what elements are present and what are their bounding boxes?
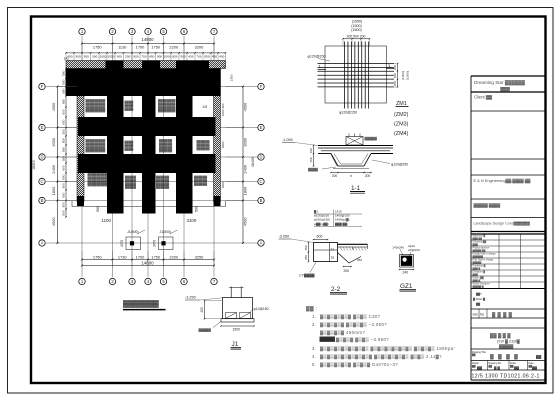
svg-text:450: 450 [149, 55, 154, 59]
svg-text:450: 450 [212, 55, 217, 59]
svg-text:3100: 3100 [187, 218, 197, 223]
svg-text:1a: 1a [331, 256, 335, 260]
svg-text:1750: 1750 [93, 254, 102, 259]
svg-text:600: 600 [317, 235, 323, 239]
plan right hatched wall [214, 69, 221, 202]
svg-text:500: 500 [195, 206, 199, 212]
ZM size table [314, 210, 350, 226]
svg-text:9: 9 [352, 247, 354, 251]
svg-text:φ120@150: φ120@150 [308, 55, 326, 59]
pad footing symbol 2 on axis A [159, 237, 174, 250]
axis grid lines [46, 36, 258, 277]
svg-text:450: 450 [304, 245, 308, 250]
svg-text:850: 850 [172, 55, 177, 59]
svg-text:▓▓▓▓▓▓▓: ▓▓▓▓▓▓▓ [123, 299, 160, 308]
svg-text:18400: 18400 [251, 157, 255, 167]
svg-text:500: 500 [61, 79, 65, 84]
svg-text:3250: 3250 [195, 254, 204, 259]
svg-text:(1000): (1000) [406, 71, 410, 80]
ZM vertical rebars [345, 42, 369, 109]
svg-text:450: 450 [200, 307, 204, 313]
svg-text:2400: 2400 [51, 164, 56, 173]
strip foundation H2 [78, 117, 216, 136]
svg-text:▓ ▓: ▓ ▓ [494, 366, 500, 370]
room label cluster row2 W1 [86, 139, 106, 153]
svg-text:500: 500 [61, 202, 65, 207]
room label cluster row1 W3 [158, 99, 176, 113]
svg-text:1800: 1800 [243, 186, 248, 195]
svg-text:▓▓: ▓▓ [536, 354, 542, 359]
project name box [471, 327, 545, 329]
bottom info row [471, 360, 545, 362]
GZ1 column section [400, 255, 414, 268]
svg-text:100: 100 [309, 148, 313, 153]
svg-text:1000: 1000 [100, 55, 107, 59]
svg-text:14800: 14800 [141, 37, 154, 42]
J1 dim 1500 [221, 325, 254, 327]
2-2 left dims [308, 243, 310, 262]
ZM right dim stack [397, 64, 399, 88]
J1 dim 450 [204, 301, 206, 319]
svg-text:1750: 1750 [151, 254, 160, 259]
svg-text:▓▓▓▓▓▓▓▓▓: ▓▓▓▓▓▓▓▓▓ [86, 109, 106, 113]
svg-text:▓▓?: ▓▓? [476, 292, 482, 296]
ZM top dim stack [351, 20, 362, 33]
svg-text:▓▓▓▓▓: ▓▓▓▓▓ [125, 185, 137, 189]
svg-text:600: 600 [61, 165, 65, 170]
left dim line [57, 87, 59, 244]
svg-text:▓▓: ▓▓ [532, 366, 537, 370]
svg-text:600: 600 [61, 119, 65, 124]
svg-text:200: 200 [332, 174, 338, 178]
svg-text:900: 900 [75, 55, 80, 59]
svg-text:(A): (A) [64, 57, 69, 61]
svg-text:550: 550 [61, 156, 65, 161]
plan left hatched wall [77, 69, 84, 202]
svg-text:▓▓: ▓▓ [514, 366, 519, 370]
svg-text:4500: 4500 [51, 102, 56, 111]
svg-text:1500: 1500 [233, 328, 241, 332]
svg-text:D: D [40, 155, 43, 160]
svg-text:(ZM3): (ZM3) [394, 122, 409, 128]
svg-text:150: 150 [309, 157, 313, 162]
svg-text:▓ Prow ▓: ▓ Prow ▓ [473, 297, 486, 301]
svg-text:▓▓ :: ▓▓ : [306, 305, 318, 312]
GZ1 dim 240 [400, 269, 414, 271]
svg-text:▓▓▓▓▓▓▓▓: ▓▓▓▓▓▓▓▓ [158, 109, 176, 113]
svg-text:▓▓: ▓▓ [489, 365, 493, 368]
drawing number row [471, 369, 545, 371]
strip foundation V4 [176, 61, 193, 214]
svg-text:500: 500 [61, 138, 65, 143]
wall stub bottom-right [214, 196, 221, 206]
svg-text:φ120@250: φ120@250 [391, 163, 408, 167]
svg-text:200: 200 [393, 65, 397, 70]
svg-text:1-1: 1-1 [351, 185, 361, 192]
strip foundation H3 [78, 154, 216, 173]
svg-text:1000: 1000 [164, 55, 171, 59]
svg-text:240: 240 [403, 271, 409, 275]
svg-text:550: 550 [61, 70, 65, 75]
svg-text:2200: 2200 [169, 45, 178, 50]
svg-text:F: F [41, 84, 44, 89]
svg-text:▓▓▓▓▓▓: ▓▓▓▓▓▓ [194, 182, 208, 186]
svg-text:250: 250 [304, 255, 308, 260]
strip foundation V2 [107, 61, 124, 214]
svg-text:-3.250: -3.250 [185, 296, 196, 300]
drawing title row [471, 348, 545, 350]
svg-text:J1(500): J1(500) [160, 230, 172, 234]
bottom total dim line [82, 265, 214, 267]
svg-text:550: 550 [61, 147, 65, 152]
svg-text:1730: 1730 [118, 254, 127, 259]
svg-text:b: b [350, 174, 352, 178]
svg-text:14800: 14800 [141, 261, 154, 266]
svg-text:4500: 4500 [243, 102, 248, 111]
room label cluster row3 W4 [194, 175, 208, 186]
2-2 footing outline [314, 243, 368, 264]
svg-text:vdo: vdo [473, 313, 478, 317]
svg-text:4.: 4. [312, 354, 316, 359]
svg-text:▓▓▓(▓▓): ▓▓▓(▓▓) [335, 222, 348, 226]
svg-text:▓▓▓▓: ▓▓▓▓ [125, 107, 135, 111]
svg-text:5.: 5. [312, 362, 316, 367]
signature fine table [471, 233, 545, 235]
svg-text:450: 450 [188, 55, 193, 59]
svg-text:3000: 3000 [51, 137, 56, 146]
notes block [306, 305, 387, 336]
strip foundation H1 [66, 69, 221, 97]
2-2 hatch ticks under top line [340, 247, 366, 251]
svg-text:200: 200 [393, 81, 397, 86]
svg-text:φ12@150: φ12@150 [254, 307, 269, 311]
svg-text:3200: 3200 [195, 45, 204, 50]
svg-text:▓▓▓▓▓▓▓▓▓: ▓▓▓▓▓▓▓▓▓ [88, 183, 108, 187]
vdo/foc row [471, 308, 545, 310]
top sub dim line [66, 52, 226, 54]
svg-text:▓▓▓▓: ▓▓▓▓ [308, 168, 318, 172]
svg-text:(ZM2): (ZM2) [394, 112, 409, 118]
svg-text:750: 750 [141, 55, 146, 59]
stamp box small texts [473, 292, 486, 306]
ZM mat detail square [325, 46, 387, 103]
room label cluster row2 W3 [159, 139, 173, 153]
left sub dim line [65, 69, 67, 218]
svg-text:1800: 1800 [221, 141, 225, 148]
axis circles L [39, 83, 45, 246]
room label cluster row3 W3 [156, 175, 170, 189]
svg-text:CY▓▓▓▓: CY▓▓▓▓ [299, 273, 315, 278]
1-1 stirrup box top [346, 137, 363, 146]
svg-text:▓▓▓▓▓: ▓▓▓▓▓ [365, 137, 378, 141]
svg-text:18400: 18400 [32, 160, 36, 170]
svg-text:1750: 1750 [93, 45, 102, 50]
bottom extension lines [82, 251, 214, 267]
J1 footing section [221, 287, 254, 323]
svg-text:φ6@200: φ6@200 [408, 248, 420, 252]
svg-text:4500: 4500 [243, 217, 248, 226]
1-1 slab lines [318, 146, 393, 154]
svg-text:A: A [260, 241, 263, 246]
svg-text:650: 650 [61, 99, 65, 104]
room label cluster row2 W4 [197, 140, 211, 151]
svg-text:2: 2 [224, 65, 226, 69]
svg-text:1a: 1a [331, 248, 335, 252]
svg-text:-3.050: -3.050 [279, 235, 290, 239]
axis circles B [79, 278, 217, 284]
svg-text:foc: foc [480, 313, 485, 317]
svg-text:D: D [259, 155, 262, 160]
svg-text:900: 900 [157, 55, 162, 59]
plan bottom outline [72, 201, 226, 207]
svg-text:500: 500 [61, 183, 65, 188]
svg-text:φ▓▓(φ▓▓): φ▓▓(φ▓▓) [314, 222, 329, 226]
1-1 bottom dims [331, 172, 371, 174]
svg-text:E32033: E32033 [320, 338, 332, 342]
pad footing symbol 1 on axis A [126, 237, 141, 250]
svg-text:C: C [40, 179, 43, 184]
svg-text:43: 43 [203, 104, 208, 109]
top dim line [82, 43, 214, 45]
svg-text:200: 200 [344, 269, 350, 273]
svg-text:J1: J1 [232, 341, 239, 348]
1-1 left dim [313, 146, 315, 167]
svg-text:GZ1: GZ1 [400, 283, 413, 290]
svg-text:▓▓▓▓▓▓: ▓▓▓▓▓▓ [197, 146, 211, 150]
svg-text:900: 900 [133, 55, 138, 59]
svg-text:▓▓▓▓: ▓▓▓▓ [125, 147, 135, 151]
svg-text:E: E [41, 125, 44, 130]
svg-text:1800: 1800 [51, 186, 56, 195]
axis circles R [258, 83, 264, 246]
svg-text:E: E [260, 125, 263, 130]
svg-text:500: 500 [61, 129, 65, 134]
svg-text:1130: 1130 [118, 45, 127, 50]
svg-text:2470: 2470 [152, 240, 156, 247]
black wall chunks in top wall [106, 61, 210, 69]
svg-text:▓▓▓▓▓▓: ▓▓▓▓▓▓ [159, 149, 173, 153]
1-1 trapezoid pit [331, 154, 371, 167]
svg-text:1750: 1750 [151, 45, 160, 50]
svg-text:600: 600 [61, 109, 65, 114]
svg-text:500: 500 [61, 174, 65, 179]
svg-text:▓▓: ▓▓ [477, 366, 482, 370]
plan top hatched wall [66, 61, 226, 69]
svg-text:1050: 1050 [108, 55, 115, 59]
bottom dim line [82, 259, 214, 261]
svg-text:2470: 2470 [120, 240, 124, 247]
room label cluster row3 W1 [88, 173, 108, 187]
top extension lines [66, 44, 226, 60]
svg-text:▓▓: ▓▓ [472, 365, 476, 368]
svg-text:1300: 1300 [230, 74, 234, 81]
right dim line [242, 87, 244, 244]
svg-text:▓▓▓▓▓: ▓▓▓▓▓ [199, 328, 212, 332]
svg-text:1700: 1700 [136, 254, 145, 259]
svg-text:700: 700 [196, 55, 201, 59]
highlighted note box [320, 337, 336, 342]
svg-text:950: 950 [84, 55, 89, 59]
wall stub bottom-left [77, 196, 84, 206]
svg-text:1700: 1700 [136, 45, 145, 50]
left extension lines [59, 87, 78, 201]
svg-text:A: A [41, 241, 44, 246]
svg-text:900: 900 [180, 55, 185, 59]
svg-text:550: 550 [61, 88, 65, 93]
svg-text:500: 500 [61, 210, 65, 215]
svg-text:240x240: 240x240 [393, 246, 405, 250]
svg-text:500: 500 [96, 206, 100, 212]
svg-text:600: 600 [61, 192, 65, 197]
axis circles T [79, 28, 217, 34]
room label cluster row1 W2 [125, 100, 135, 111]
svg-text:(ZM4): (ZM4) [394, 131, 409, 137]
svg-text:(1400): (1400) [401, 71, 405, 80]
room label cluster row3 W2 [125, 175, 137, 189]
right extension lines [226, 87, 243, 201]
svg-text:▓▓▓▓▓ ▓: ▓▓▓▓▓ ▓ [473, 285, 484, 288]
svg-text:(1600): (1600) [351, 28, 361, 32]
svg-text:▓▓▓▓▓▓▓▓▓: ▓▓▓▓▓▓▓▓▓ [86, 149, 106, 153]
J1 inner rebar boxes [226, 313, 251, 319]
room label cluster row2 W2 [125, 140, 135, 151]
svg-text:2-2: 2-2 [331, 286, 341, 293]
2-2 dim 200 [344, 266, 352, 268]
svg-text:-1.050: -1.050 [282, 138, 293, 142]
svg-text:J1(500): J1(500) [127, 230, 139, 234]
svg-text:φ120@150: φ120@150 [339, 111, 357, 115]
room label cluster row1 W1 [86, 99, 106, 113]
svg-text:500: 500 [92, 55, 97, 59]
svg-text:2.: 2. [312, 322, 316, 327]
svg-text:600: 600 [393, 73, 397, 78]
svg-text:B: B [41, 198, 44, 203]
svg-text:1800: 1800 [221, 181, 225, 188]
strip foundation V3 [142, 61, 156, 214]
svg-text:350: 350 [357, 258, 362, 262]
svg-text:▓▓: ▓▓ [472, 354, 476, 357]
svg-text:3000: 3000 [243, 137, 248, 146]
title block outline [470, 76, 472, 380]
svg-text:2200: 2200 [169, 254, 178, 259]
svg-text:3.: 3. [312, 346, 316, 351]
right inner rotated dims [221, 103, 225, 188]
ZM horizontal rebars [318, 64, 395, 87]
svg-text:▓▓▓▓▓▓: ▓▓▓▓▓▓ [156, 185, 170, 189]
svg-text:200 500 200: 200 500 200 [347, 34, 366, 38]
svg-text:400: 400 [219, 55, 224, 59]
svg-text:F: F [260, 84, 263, 89]
svg-text:12/5 1300 TD1021.06.2-1: 12/5 1300 TD1021.06.2-1 [472, 374, 540, 380]
svg-text:4500: 4500 [51, 217, 56, 226]
svg-text:C: C [259, 179, 262, 184]
svg-text:200: 200 [365, 174, 371, 178]
svg-text:900: 900 [117, 55, 122, 59]
svg-text:1.: 1. [312, 314, 316, 319]
svg-text:200: 200 [125, 55, 130, 59]
svg-text:B: B [260, 198, 263, 203]
svg-text:1100: 1100 [102, 218, 112, 223]
svg-text:▓ ▓ ▓ ▓: ▓ ▓ ▓ ▓ [490, 353, 519, 360]
svg-text:950: 950 [204, 55, 209, 59]
svg-text:2400: 2400 [243, 164, 248, 173]
svg-text:1200 300: 1200 300 [221, 103, 225, 116]
